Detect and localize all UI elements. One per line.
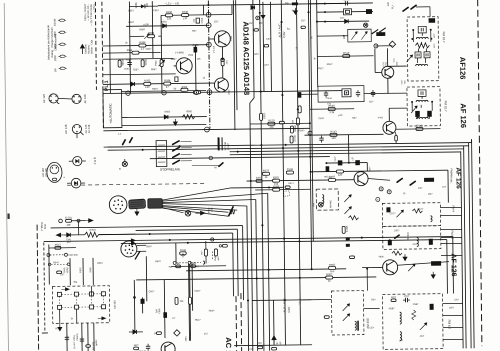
wire supply row [49, 247, 76, 249]
diode AM detector [345, 19, 349, 23]
relay contact arm 3 [173, 154, 180, 158]
node on rail at y=14.3 [206, 12, 211, 17]
resistor R579 1k [262, 172, 269, 175]
wire horizontal rail y=154.5 [230, 152, 461, 155]
component on bus x280 y123 [279, 121, 284, 124]
svg-text:R59?: R59? [152, 88, 158, 91]
wire lamp to rail [124, 159, 126, 161]
svg-text:C5?: C5? [214, 20, 219, 23]
svg-text:AC 125: AC 125 [224, 337, 233, 351]
svg-text:AM: AM [311, 203, 315, 207]
fan wire 5 [162, 205, 237, 211]
wire corner vertical x=255.5 lower [256, 200, 258, 351]
junction dot at 389,242 [389, 239, 391, 241]
tiny parts top bundle [254, 29, 259, 31]
switch cell r2c4 [102, 305, 106, 309]
wire corner drop x=205.5 [202, 5, 204, 15]
tuning cap FM osc 2 [344, 207, 351, 214]
svg-text:Boîtier · Caja: Boîtier · Caja [90, 39, 93, 54]
svg-text:C5?: C5? [404, 294, 409, 298]
junction dot at 283.4,300.5 [284, 299, 286, 301]
svg-text:SM 460: SM 460 [408, 231, 410, 240]
wire horizontal rail y=300.5 [252, 299, 311, 302]
svg-text:C57?: C57? [390, 212, 396, 215]
svg-text:C558: C558 [202, 17, 204, 23]
svg-text:R5?: R5? [352, 117, 357, 120]
svg-text:– L21– – L81: – L21– – L81 [164, 1, 180, 5]
svg-text:C5?: C5? [249, 22, 254, 25]
terminal circle row b [188, 261, 191, 264]
svg-text:7,5V: 7,5V [211, 207, 213, 212]
switch matrix dashed box [52, 286, 109, 324]
registration tick left edge [7, 213, 9, 219]
svg-text:C545 600: C545 600 [68, 255, 78, 257]
wire corner vertical x=232 lower [232, 233, 235, 296]
component on bus x300 y110 [298, 106, 301, 113]
svg-text:R543: R543 [330, 130, 337, 134]
osc component C572 [349, 256, 354, 259]
resistor R543 120 [330, 133, 337, 136]
svg-text:R54?: R54? [53, 261, 59, 264]
svg-text:C548: C548 [416, 124, 423, 128]
svg-text:R596: R596 [182, 87, 188, 89]
junction dot at 261.8,91.7 [260, 90, 262, 92]
node on rail y91.7 B [162, 91, 166, 95]
pinout rectifier diode circle [71, 178, 81, 188]
black coil L509 [431, 261, 441, 266]
junction dot at 298.6,278.5 [299, 277, 301, 279]
svg-text:R5?: R5? [292, 9, 297, 12]
svg-text:R592: R592 [144, 79, 151, 83]
resistor row above rail 2 [214, 249, 217, 256]
wire PL1 board dashed border left outer [95, 2, 96, 90]
crystal in filter box [342, 89, 351, 97]
solid filter box FM1 [318, 86, 364, 103]
svg-text:C5?: C5? [369, 100, 374, 103]
svg-text:— ( FM ): — ( FM ) [93, 4, 96, 14]
switch S1 top right [403, 7, 409, 11]
component C569 dashed below rail [283, 191, 289, 196]
junction x349 y164 [348, 162, 350, 164]
second connector stub wires [137, 244, 146, 246]
pinout AD148 AD149 power transistor outline [47, 162, 62, 182]
stub wire ratio y=342 [443, 338, 463, 340]
arrow down at row 116 [173, 119, 177, 126]
resistor R547 in supply box [55, 246, 61, 249]
svg-text:AF 126: AF 126 [449, 253, 456, 276]
half terminal c [203, 261, 205, 264]
wire R582 row y=35 [130, 35, 144, 37]
wire bottom-left drop x86 [87, 323, 89, 351]
wire vertical bus x=265 top [263, 2, 264, 92]
junction dot at 310.5,270 [311, 268, 313, 270]
svg-text:MR: MR [67, 225, 71, 227]
ratio coil with zigzag [400, 312, 402, 324]
junction dot at 298.6,151.5 [297, 150, 299, 152]
wire row y=82.6 [103, 83, 214, 84]
electrolytic x327 y170 [326, 166, 330, 172]
wire horizontal rail y=229 [136, 229, 238, 230]
junction dot at 255.5,278.5 [256, 277, 258, 279]
svg-text:R586: R586 [121, 59, 125, 66]
svg-text:CAV: CAV [287, 307, 291, 313]
switch osc B [410, 181, 416, 185]
matrix ground arrow [58, 324, 62, 331]
resistor R569 [273, 188, 280, 191]
IF transformer box2 dashed FM 10.7 [407, 87, 440, 126]
junction dot at 180,145.3 [179, 145, 181, 147]
wire corner x448 down [447, 170, 449, 202]
transistor T2 AC125 driver [176, 58, 192, 74]
wire right bus vertical x=472 [472, 139, 475, 348]
svg-text:AD 149: AD 149 [44, 168, 48, 177]
junction dot at 310.5,13 [307, 11, 309, 13]
svg-text:R547: R547 [55, 243, 62, 247]
wire row y172.6 [311, 170, 448, 172]
wire row y=57.5 [103, 57, 174, 60]
junction dot at 283.4,239 [283, 238, 285, 240]
AM mixer circle M [318, 202, 323, 207]
IF2 terminal dots [411, 101, 413, 103]
svg-text:S50?: S50? [146, 245, 152, 248]
wire row y=44.2 [102, 45, 208, 46]
legend text Gehaeuse Housing Boitier Caja [80, 45, 84, 55]
AM osc coil box [316, 189, 338, 210]
switch slash bottom centre [135, 251, 140, 259]
fan wire 4 [162, 203, 247, 207]
bottom-left bottom components row [65, 336, 69, 338]
svg-text:S 501: S 501 [65, 216, 72, 220]
vertical x92 supply [92, 258, 94, 285]
wire central dash-dot rail x=210 [208, 0, 210, 128]
discriminator box FM4 dashed [382, 203, 440, 227]
stub wire right y=218 [441, 214, 462, 216]
junction dot at 267.5,270 [268, 269, 270, 271]
svg-text:C5?: C5? [413, 243, 418, 246]
wire row y=51.3 [102, 51, 160, 54]
svg-text:C5?: C5? [454, 298, 459, 301]
dashed drop x211 with C549 label [211, 251, 213, 259]
IF1 cap pair b [424, 52, 430, 58]
svg-text:FM/AM osc.: FM/AM osc. [449, 169, 453, 184]
resistor R588 [132, 51, 139, 54]
svg-text:R5?: R5? [428, 193, 433, 196]
chassis arrow centre top [261, 12, 265, 19]
svg-text:C503: C503 [343, 0, 350, 1]
ratio black cap [430, 304, 434, 310]
svg-text:U501A: U501A [207, 207, 210, 214]
resistor R596 [181, 88, 188, 91]
wire choke out [99, 233, 136, 235]
svg-text:AF 126: AF 126 [459, 103, 468, 128]
svg-text:+AUTOMATIC: +AUTOMATIC [109, 103, 113, 124]
transistor T3 AD148 lower [214, 78, 228, 92]
svg-text:R60?: R60? [155, 260, 161, 263]
wire T1 base [209, 38, 215, 40]
svg-text:R5?: R5? [192, 30, 197, 33]
capacitor C546 right of filter [371, 91, 375, 93]
svg-text:V583: V583 [229, 89, 231, 95]
wire bottom-left drop x80 [81, 323, 83, 351]
capacitor C566 [286, 171, 293, 174]
stop relay coil box [156, 141, 167, 167]
svg-text:Carga máxima: Carga máxima [53, 33, 57, 50]
wire vertical bus x=298.6 Uregel [296, 0, 300, 345]
svg-text:R565: R565 [186, 111, 192, 113]
svg-text:C544: C544 [326, 98, 332, 100]
svg-text:500Ω: 500Ω [64, 267, 66, 273]
wire vertical x=145.3 bottom [145, 256, 148, 301]
diode D at top-left feed [141, 4, 145, 8]
wire corner vertical x=242 lower [242, 226, 245, 300]
svg-text:PU: PU [390, 5, 394, 9]
svg-text:C54?: C54? [335, 156, 337, 162]
svg-text:R556: R556 [135, 2, 138, 8]
svg-text:C60?: C60? [195, 290, 201, 293]
svg-text:AC 128: AC 128 [64, 124, 68, 134]
wire power drop [78, 221, 80, 235]
wire osc base row y181 [247, 180, 354, 181]
component left of AM460 box [324, 316, 329, 319]
switch M bottom [219, 162, 224, 166]
svg-text:C562: C562 [262, 113, 266, 120]
component C567 on bus top of fan rail [256, 179, 262, 182]
svg-text:R584: R584 [139, 40, 146, 44]
wire vertical bus x=250.7 lower segment [250, 103, 253, 351]
supply box inner row dashes [51, 263, 67, 265]
svg-text:GE: GE [285, 1, 289, 5]
node plus x389 [387, 190, 391, 194]
terminal circle on rail y239 [211, 238, 214, 241]
legend wattage symbol 1W [60, 67, 65, 69]
svg-text:AF126: AF126 [458, 57, 467, 80]
capacitor C562 [127, 61, 131, 63]
junction dot at 261.8,13 [259, 12, 261, 14]
wire left lower dash-dot border [37, 225, 39, 351]
FM4 black part [386, 207, 390, 212]
svg-text:R5?: R5? [259, 22, 264, 25]
wire box left vertical x=43 dashed [44, 243, 45, 333]
tuning cap FM osc 1 [344, 195, 351, 202]
gnd arrow T8 area [431, 272, 435, 279]
wire T8 base [362, 266, 382, 268]
wire drop x205 [205, 241, 207, 249]
fuse 5MR [66, 219, 72, 222]
svg-text:Dr501: Dr501 [90, 229, 97, 232]
section divider dash-dot left of AC125 [235, 296, 238, 351]
wire horizontal rail y=239 [44, 237, 453, 242]
resistor R590 [141, 60, 144, 67]
wire fan rail y=187.7 [230, 186, 283, 189]
resistor row above rail 1 [204, 249, 207, 256]
node FM y47 [374, 44, 378, 48]
FM6.7 switch [395, 235, 400, 238]
svg-text:C5?: C5? [420, 335, 425, 338]
wire fuse to node [72, 220, 86, 222]
node on rail y91.7 C [194, 90, 198, 94]
transistor T8 AF126 bottom [383, 260, 398, 275]
svg-text:R55?: R55? [97, 262, 103, 265]
resistor emitter T5 [395, 135, 398, 141]
legend wattage symbol 1/10W [59, 19, 64, 21]
wire vertical bus x=235.5 [233, 0, 235, 130]
svg-text:1W: 1W [53, 68, 57, 72]
wire matrix drop x90 [90, 286, 92, 296]
electrolytic on bus x300 y95 [298, 92, 302, 98]
resistor R592 [144, 82, 151, 85]
svg-text:6mA: 6mA [44, 224, 47, 229]
diode D594 black [131, 82, 135, 86]
motor start capacitor [218, 137, 220, 150]
wire matrix drop x75 [76, 309, 78, 323]
wire automatic box to relay top [121, 91, 205, 92]
capacitor C548 at T5 [416, 127, 423, 130]
wire right of AM460 [364, 307, 380, 309]
wire M row [192, 164, 219, 166]
arrow right of lamp [195, 211, 205, 215]
svg-text:AM: AM [342, 34, 346, 39]
wire vertical bus x=272.5 top [270, 2, 271, 92]
stub wire ratio y=330 [443, 326, 463, 328]
transistor T4 AF125 FM RF [382, 66, 394, 78]
AM460 IF box dashed [331, 291, 364, 335]
relay contact arm 1 [173, 141, 180, 145]
lamp indicator 2.4B [122, 161, 127, 166]
AM osc coil [322, 195, 324, 204]
svg-text:D565: D565 [164, 111, 170, 113]
svg-text:1/10W: 1/10W [53, 18, 57, 26]
svg-text:R59?: R59? [151, 68, 157, 71]
diode D566 on row 116 [164, 115, 168, 119]
wire T1 emitter chain down [221, 47, 223, 58]
svg-text:STOPRELAIS: STOPRELAIS [160, 167, 180, 171]
bottom edge parts a [258, 346, 263, 349]
arrow stub rail y239 [129, 239, 136, 242]
resistor R570 15k [268, 122, 275, 125]
wire vertical x=188.5 drop [189, 264, 192, 340]
svg-text:(–1.4V): (–1.4V) [213, 46, 215, 53]
AM460 trimmer 1 [343, 304, 350, 311]
wire row y164 [326, 162, 367, 164]
wire right bus vertical x=469 [469, 143, 472, 348]
wire vertical x191 [191, 264, 194, 311]
relay contact arm 4 [173, 160, 180, 164]
wire T4 collector to IF1 [388, 65, 407, 67]
zigzag thermistor R565 [182, 114, 195, 119]
wire power row [64, 234, 85, 236]
wire PL1 board dashed border left inner [102, 2, 104, 128]
resistor R586 [118, 60, 121, 67]
wire T4 collector [386, 48, 388, 66]
legend wattage symbol 1/4W [60, 43, 65, 45]
crystal filter component [343, 9, 351, 15]
svg-text:R552: R552 [80, 267, 82, 273]
svg-text:+: + [63, 175, 65, 179]
wire row y=73 [103, 73, 176, 76]
node on rail at y=24.8 [206, 23, 211, 28]
wire cluster to rail [171, 265, 226, 268]
svg-text:R51?: R51? [327, 63, 333, 66]
resistor R562 between transistors [221, 59, 224, 66]
resistor R582 [147, 35, 154, 38]
svg-text:1.5: 1.5 [141, 47, 145, 51]
svg-text:AF 126: AF 126 [454, 167, 461, 189]
wire T8 collector row [398, 262, 450, 266]
wire osc row y190 [255, 188, 310, 191]
svg-text:R570: R570 [268, 118, 275, 122]
potentiometer RUM [180, 252, 187, 255]
wire row y=91.7 long [103, 91, 344, 94]
IF2 cap box [418, 90, 426, 97]
switch osc A [397, 178, 403, 182]
junction dot at 310.5,124 [309, 122, 311, 124]
transistor T6 AC125 preamp [161, 342, 175, 351]
svg-text:L50?: L50? [394, 229, 400, 232]
junction dot at 283.4,148.5 [282, 147, 284, 149]
svg-text:C55?: C55? [128, 21, 134, 24]
switch cell r1c3 [89, 292, 93, 296]
terminal circle row a [173, 261, 176, 264]
wire gang to bus [317, 35, 348, 37]
FM6.7 black part [388, 240, 392, 245]
svg-text:C5?: C5? [370, 326, 375, 329]
resistor R540 [182, 14, 189, 17]
junction dot at 169,239 [169, 239, 171, 241]
osc caps C571 [346, 244, 350, 247]
wire bus jog [250, 98, 254, 103]
svg-text:MOTOR: MOTOR [225, 141, 227, 150]
arrow power right [86, 219, 94, 223]
arrow up on x=272 [272, 336, 276, 344]
svg-text:C51?: C51? [318, 67, 324, 70]
junction dot at 318.8,22.5 [316, 21, 318, 23]
svg-text:R573: R573 [345, 226, 349, 233]
legend wattage symbol 1/2W [60, 55, 65, 57]
junction dot at 261.8,225.5 [261, 224, 263, 226]
IF2 winding lower [416, 117, 428, 119]
junction dot on fan rail [268, 186, 270, 188]
svg-text:40µ: 40µ [73, 281, 78, 284]
svg-text:R594: R594 [164, 78, 171, 82]
terminal dot row2 [324, 11, 326, 13]
svg-text:L5?: L5? [442, 186, 447, 189]
wire corner vertical x=267.5 lower [268, 193, 270, 350]
wire amp left vertical x=111.4 [108, 15, 111, 94]
pinout AF125 transistor base diagram [49, 94, 58, 103]
IF1 cap pair a [415, 52, 421, 58]
wire T2 base [174, 65, 176, 67]
wire horizontal rail y=157.5 [150, 157, 330, 159]
junction dot at 149,232.8 [149, 233, 151, 235]
wire AM row y=4.5 [308, 2, 372, 5]
svg-text:START: START [227, 142, 230, 150]
legend wattage symbol 1/8W [60, 31, 65, 33]
pinout AC128 AC125 AC126 transistor base diagram [72, 124, 81, 133]
capacitor C560 electrolytic [194, 47, 198, 53]
dashed boundary above connector [67, 184, 207, 186]
wire switches to IF box [416, 6, 430, 8]
AM tuning gang box [348, 29, 372, 42]
wire box bottom stub [42, 332, 48, 334]
supply box extra part [57, 271, 62, 274]
node T-chain [221, 58, 225, 62]
wire vertical bus x=318.8 [317, 0, 318, 87]
junction dots x310 [309, 134, 311, 136]
wire horizontal rail y=232.8 [99, 233, 233, 235]
svg-text:R588: R588 [127, 50, 133, 52]
wire right bus vertical x=464 [464, 146, 466, 348]
wire osc out to switches [368, 178, 390, 180]
